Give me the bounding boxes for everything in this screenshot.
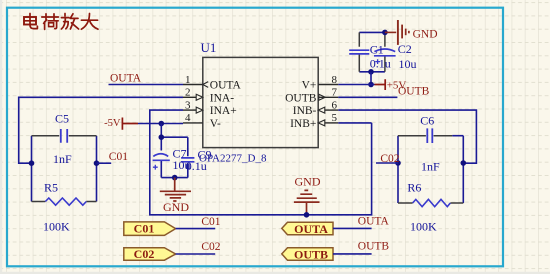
pin 6 stub [325, 109, 339, 111]
resistor R5 zigzag [45, 198, 86, 205]
ground symbol under C7 [160, 178, 191, 201]
junction right node [94, 160, 100, 166]
ground symbol on gnd bus [294, 190, 320, 214]
pin 4 stub [183, 122, 203, 124]
wire pin 2 to left node [19, 97, 183, 163]
resistor R6 zigzag [413, 199, 451, 206]
wire pin 7 OUTB [338, 96, 397, 98]
port C01 [124, 222, 176, 236]
svg-text:GND: GND [413, 29, 438, 41]
junction C7 bottom [172, 175, 178, 181]
power port GND (bar style) [398, 20, 409, 45]
C7/C9 bank loop wires [161, 137, 188, 177]
svg-text:-5V: -5V [104, 118, 121, 129]
wire port C02 [176, 253, 216, 255]
pin 6 input triangle [318, 107, 325, 113]
window edge left [0, 0, 2, 274]
capacitor C7 (polarized 10u) [153, 154, 170, 161]
svg-text:7: 7 [332, 87, 338, 99]
C2 plus sign [375, 59, 380, 64]
svg-text:V+: V+ [302, 80, 317, 92]
svg-text:2: 2 [185, 87, 191, 99]
wire loop bottom [359, 71, 385, 73]
放 [61, 14, 69, 30]
capacitor C6 leads [398, 135, 452, 137]
svg-text:R5: R5 [44, 180, 58, 194]
pin 5 input triangle [318, 120, 325, 126]
pin 7 output triangle [319, 94, 326, 100]
wire loop top [359, 31, 385, 33]
svg-text:INB+: INB+ [290, 118, 316, 130]
wire port OUTB [333, 253, 372, 255]
svg-text:3: 3 [185, 99, 191, 111]
C7 plus sign [153, 165, 158, 170]
port OUTA [282, 222, 333, 236]
svg-text:GND: GND [163, 200, 189, 214]
pin 7 stub [318, 96, 338, 98]
svg-text:OUTB: OUTB [294, 247, 328, 261]
pin 2 input triangle [196, 94, 203, 100]
wire pin 6 to right network [338, 110, 476, 163]
svg-text:1: 1 [185, 74, 191, 86]
svg-text:OUTB: OUTB [285, 92, 317, 104]
svg-text:C01: C01 [201, 216, 220, 228]
wire OUTA to pin 1 [109, 84, 184, 86]
svg-text:OUTA: OUTA [294, 222, 328, 236]
title 电荷放大 [24, 14, 98, 30]
svg-text:C5: C5 [55, 111, 69, 125]
window edge bottom [0, 272, 550, 274]
wire left column [397, 136, 399, 203]
svg-text:OUTB: OUTB [358, 241, 390, 253]
IC U1 body [203, 57, 318, 147]
svg-text:0.1u: 0.1u [186, 159, 207, 173]
capacitor C5 leads [32, 135, 97, 137]
svg-text:OUTA: OUTA [358, 216, 390, 228]
wire stub to C01 [97, 162, 112, 164]
pin 8 stub [318, 84, 338, 86]
pin 3 input triangle [196, 107, 203, 113]
svg-text:INA-: INA- [210, 92, 234, 104]
svg-text:1nF: 1nF [53, 152, 72, 166]
svg-text:C6: C6 [420, 113, 434, 127]
wire stub to C02 [376, 162, 398, 164]
junction left node [395, 160, 401, 166]
svg-text:R6: R6 [407, 180, 421, 194]
svg-text:4: 4 [185, 112, 191, 124]
capacitor C1 plates [349, 50, 369, 54]
svg-text:0.1u: 0.1u [370, 56, 391, 70]
wire V- down to C7 bank [160, 124, 162, 138]
荷 [42, 14, 59, 20]
pin 5 stub [325, 122, 339, 124]
junction bottom loop [368, 69, 374, 75]
capacitor C5 plates [61, 129, 67, 143]
junction left node [29, 160, 35, 166]
wire right column [96, 136, 98, 202]
svg-text:6: 6 [332, 99, 338, 111]
capacitor C9 (0.1u) [181, 158, 194, 162]
wire port OUTA [333, 227, 372, 229]
pin 2 stub [183, 96, 197, 98]
junction C7 top [159, 134, 165, 140]
capacitor C6 plates [427, 128, 432, 143]
svg-text:C2: C2 [398, 42, 412, 56]
wire loop to V+ rail [370, 72, 372, 85]
svg-text:C01: C01 [109, 151, 128, 163]
C1 leads [358, 32, 360, 71]
svg-text:8: 8 [332, 74, 338, 86]
junction top loop [382, 30, 388, 36]
junction right node [461, 160, 467, 166]
svg-text:OUTA: OUTA [210, 80, 242, 92]
pin 3 stub [183, 109, 197, 111]
pin 1 output chevron [203, 82, 208, 88]
junction gnd bus [304, 212, 310, 218]
C2 leads [384, 32, 386, 71]
pin 1 OUTA stub [183, 84, 203, 86]
resistor R5 leads [32, 201, 97, 203]
svg-text:OUTA: OUTA [110, 73, 142, 85]
resistor R6 leads [398, 202, 463, 204]
大 [81, 14, 98, 30]
wire pin 5 [338, 122, 371, 124]
wire right column [462, 136, 464, 203]
svg-text:10u: 10u [399, 57, 417, 71]
port OUTB [282, 247, 333, 261]
wire pin 8 to +5V [338, 84, 374, 86]
wire pin 3 down to gnd bus [150, 110, 372, 215]
svg-text:C02: C02 [201, 241, 220, 253]
电 [24, 17, 36, 25]
power port +5V [375, 79, 386, 90]
svg-text:C02: C02 [134, 247, 155, 261]
svg-text:C1: C1 [370, 43, 384, 57]
svg-text:U1: U1 [201, 40, 217, 55]
svg-text:5: 5 [332, 112, 338, 124]
wire -5V to pin 4 [138, 123, 183, 125]
wire GND bar port [385, 31, 396, 33]
capacitor C2 (polarized 10u) [374, 49, 396, 56]
wire port C01 [176, 228, 216, 230]
svg-text:GND: GND [295, 175, 321, 189]
port C02 [124, 247, 176, 261]
svg-text:C01: C01 [134, 222, 155, 236]
svg-text:V-: V- [210, 118, 221, 130]
wire left column [31, 136, 33, 202]
junction V+ rail [368, 82, 374, 88]
svg-text:1nF: 1nF [421, 160, 440, 174]
junction V- rail [159, 121, 165, 127]
svg-text:INB-: INB- [293, 105, 317, 117]
svg-text:100K: 100K [410, 219, 437, 233]
svg-text:100K: 100K [43, 219, 70, 233]
svg-text:OUTB: OUTB [398, 85, 430, 97]
svg-text:INA+: INA+ [210, 105, 237, 117]
